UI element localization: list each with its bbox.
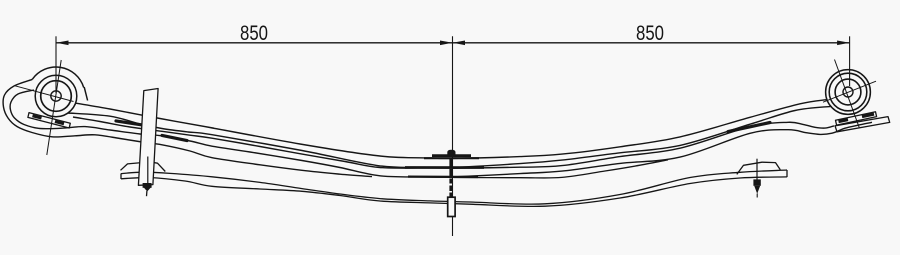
right eye outer circle	[826, 70, 871, 115]
left clamp strap	[138, 89, 158, 186]
leaf no.3 tapered right end (dark segment)	[728, 123, 770, 132]
helper leaf no.4 left end cap	[120, 174, 122, 180]
right eye inclined centerline horizontal	[823, 81, 876, 102]
dimension arrow right end	[837, 41, 850, 46]
main leaf no.1 top edge	[76, 100, 828, 159]
svg-text:850: 850	[636, 22, 664, 45]
center bolt head seat bar	[432, 154, 471, 157]
dimension extension line center	[452, 36, 454, 236]
wrap-side leaf no.2 bottom edge right	[452, 122, 872, 177]
right eye seat plate bolt mark 2	[862, 114, 874, 117]
center bolt shank segment 2	[449, 169, 452, 176]
dimension line right 850	[453, 42, 850, 44]
right clamp pin	[756, 159, 758, 180]
right eye seat plate	[836, 112, 877, 125]
center bolt shank segment 4	[449, 186, 452, 192]
left clamp block	[121, 162, 166, 172]
left eye seat plate bolt mark 1	[33, 116, 42, 118]
main leaf no.1 bottom edge	[68, 106, 831, 167]
left eye outer circle	[35, 75, 77, 117]
right eye middle circle	[829, 73, 867, 111]
center bolt head	[447, 150, 455, 157]
leaf no.3 right edge	[454, 160, 668, 178]
wrap leaf no.2 top edge left	[73, 117, 452, 168]
center bolt shank segment 5	[449, 193, 452, 197]
leaf no.2 bottom edge dark taper	[162, 135, 187, 140]
dimension line left 850	[56, 42, 453, 44]
helper leaf no.4 right end cap	[786, 170, 788, 177]
center bolt shank segment 1	[449, 158, 452, 167]
center bolt shank segment 3	[449, 179, 452, 184]
left eye seat plate bolt mark 2	[55, 121, 64, 123]
right eye long seat bar (leaf 2 end)	[835, 117, 890, 132]
wrap leaf no.2 end cap	[84, 87, 87, 101]
left clamp pin tail	[146, 191, 148, 196]
dimension arrow left end	[56, 41, 69, 46]
wrap leaf no.2 outer hook continuing as leaf no.3 top edge	[3, 79, 372, 176]
helper leaf no.4 top edge	[121, 170, 787, 204]
right eye pin circle	[843, 87, 853, 97]
leaf interface dark segment 3 at bolt	[408, 176, 478, 179]
right clamp pin arrow tip	[754, 186, 760, 194]
left clamp pin	[147, 157, 149, 184]
left eye inclined centerline horizontal	[15, 86, 74, 102]
dimension extension line left	[55, 36, 57, 93]
dimension arrow center left	[440, 41, 453, 46]
svg-text:850: 850	[240, 22, 268, 45]
left eye bushing circle	[41, 81, 72, 112]
right clamp pin nut	[753, 179, 760, 185]
left eye seat plate	[28, 113, 70, 128]
right eye seat plate bolt mark 1	[839, 120, 849, 122]
left eye pin circle	[51, 91, 61, 101]
leaf interface dark segment 1 at bolt	[424, 157, 479, 159]
leaf no.1 bottom edge dark taper	[116, 121, 143, 125]
left clamp pin arrow tip	[144, 188, 151, 192]
left eye inclined centerline vertical	[47, 60, 61, 155]
right eye bushing circle	[835, 79, 861, 105]
wrap leaf no.2 outer wrap arc	[32, 67, 83, 87]
right clamp block	[737, 162, 781, 174]
wrap leaf no.2 inner hook continuing as leaf no.2 bottom edge	[10, 90, 452, 177]
dimension extension line right	[849, 36, 851, 86]
right eye inclined centerline vertical	[835, 60, 860, 128]
wrap-side leaf no.2 top edge right	[452, 122, 834, 168]
center bolt nut	[448, 197, 455, 216]
dimension arrow center right	[453, 41, 466, 46]
left clamp pin nut	[143, 183, 152, 188]
helper leaf no.4 bottom edge	[121, 177, 787, 207]
leaf interface dark segment 2 at bolt	[405, 166, 484, 169]
right clamp pin tail	[756, 194, 758, 198]
